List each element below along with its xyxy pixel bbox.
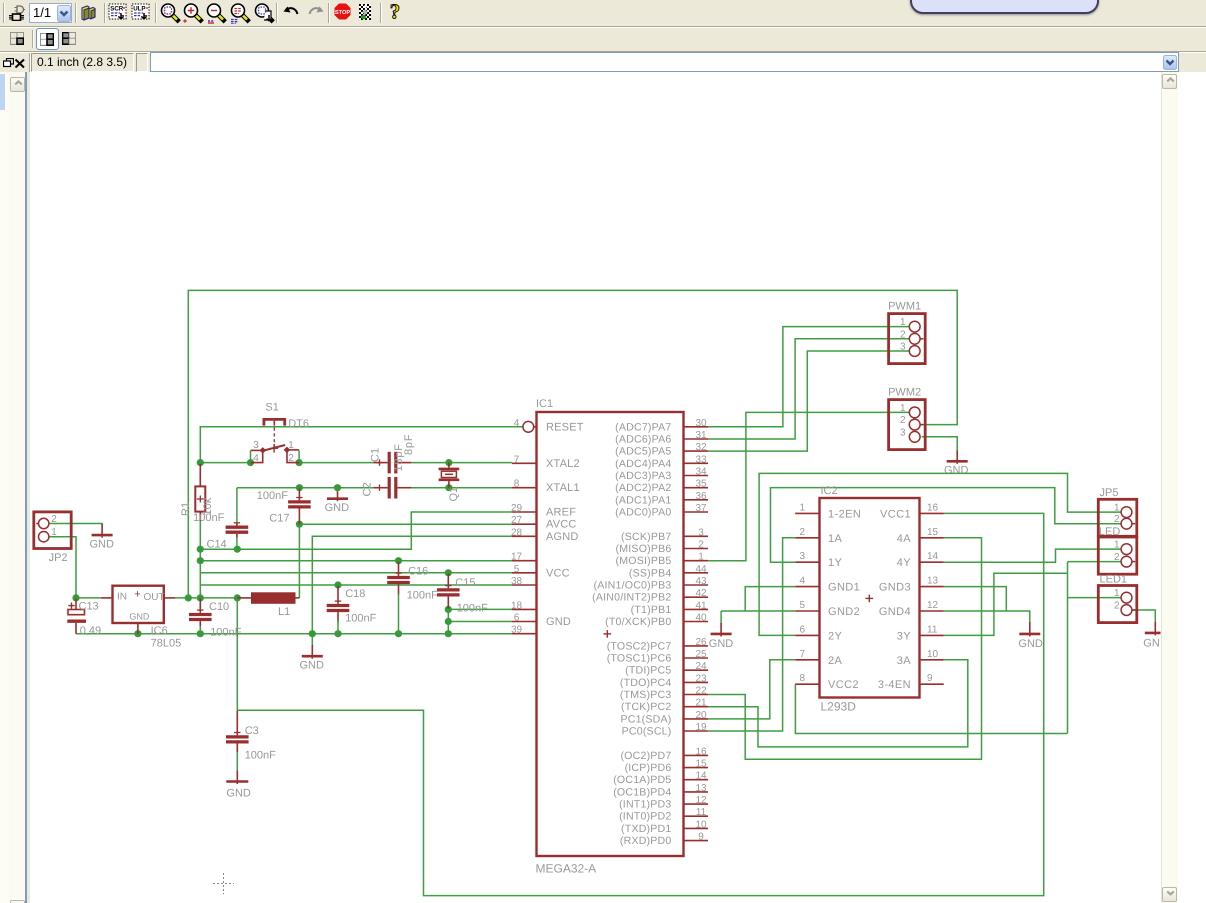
svg-text:C2: C2: [362, 482, 374, 496]
svg-text:11: 11: [696, 807, 707, 818]
svg-text:(ADC4)PA4: (ADC4)PA4: [615, 458, 671, 470]
svg-text:C3: C3: [245, 725, 259, 737]
svg-text:(OC1A)PD5: (OC1A)PD5: [613, 774, 671, 786]
svg-text:Q1: Q1: [448, 487, 460, 502]
svg-text:JP5: JP5: [1100, 487, 1119, 499]
svg-text:(INT0)PD2: (INT0)PD2: [619, 811, 671, 823]
svg-text:0,49: 0,49: [80, 625, 101, 637]
svg-text:(ADC0)PA0: (ADC0)PA0: [615, 507, 671, 519]
svg-text:GND: GND: [226, 788, 251, 800]
svg-text:12: 12: [695, 795, 707, 806]
svg-text:13: 13: [695, 783, 707, 794]
svg-text:GND4: GND4: [879, 606, 911, 618]
svg-text:R1: R1: [180, 502, 192, 516]
svg-text:10: 10: [695, 819, 707, 830]
svg-text:39: 39: [511, 625, 523, 636]
svg-text:2: 2: [799, 527, 805, 538]
svg-text:(OC1B)PD4: (OC1B)PD4: [613, 786, 671, 798]
svg-text:28: 28: [511, 527, 523, 538]
svg-text:38: 38: [511, 576, 523, 587]
svg-text:(AIN0/INT2)PB2: (AIN0/INT2)PB2: [592, 592, 671, 604]
svg-text:AVCC: AVCC: [546, 519, 577, 531]
svg-text:10: 10: [927, 649, 939, 660]
svg-text:20: 20: [695, 710, 707, 721]
svg-text:100nF: 100nF: [245, 750, 276, 762]
svg-text:AREF: AREF: [546, 507, 576, 519]
svg-text:6: 6: [514, 613, 520, 624]
svg-text:15: 15: [695, 759, 707, 770]
svg-text:C10: C10: [209, 601, 229, 613]
svg-text:AGND: AGND: [546, 531, 579, 543]
svg-text:(ADC7)PA7: (ADC7)PA7: [615, 421, 671, 433]
svg-text:43: 43: [695, 576, 707, 587]
svg-text:IN: IN: [117, 591, 127, 602]
svg-text:4: 4: [253, 453, 259, 464]
svg-text:1: 1: [1114, 503, 1120, 514]
svg-text:17: 17: [511, 552, 523, 563]
svg-text:(AIN1/OC0)PB3: (AIN1/OC0)PB3: [594, 580, 672, 592]
svg-text:C1: C1: [369, 448, 381, 462]
svg-text:(TOSC2)PC7: (TOSC2)PC7: [607, 640, 672, 652]
svg-text:C15: C15: [455, 577, 475, 589]
svg-text:(ICP)PD6: (ICP)PD6: [625, 762, 672, 774]
svg-text:9: 9: [698, 832, 704, 843]
svg-text:ULP: ULP: [133, 5, 145, 12]
svg-text:27: 27: [511, 515, 523, 526]
svg-text:IC6: IC6: [151, 625, 168, 637]
svg-text:2: 2: [698, 540, 704, 551]
svg-text:IC2: IC2: [821, 485, 838, 497]
svg-text:?: ?: [390, 2, 401, 22]
svg-text:OUT: OUT: [144, 592, 165, 603]
svg-text:1Y: 1Y: [828, 557, 843, 569]
svg-text:32: 32: [695, 442, 707, 453]
svg-text:C17: C17: [269, 513, 289, 525]
svg-text:STOP: STOP: [335, 10, 350, 16]
svg-text:4: 4: [514, 418, 520, 429]
svg-text:8: 8: [514, 479, 520, 490]
svg-text:7: 7: [514, 454, 520, 465]
svg-text:DT6: DT6: [288, 418, 309, 430]
svg-text:VCC: VCC: [546, 567, 570, 579]
svg-text:(RXD)PD0: (RXD)PD0: [620, 835, 672, 847]
svg-text:GND: GND: [90, 539, 115, 551]
svg-text:1: 1: [698, 552, 704, 563]
svg-text:SCR: SCR: [110, 5, 124, 12]
svg-text:5: 5: [514, 564, 520, 575]
svg-text:8: 8: [799, 673, 805, 684]
svg-text:18: 18: [511, 600, 523, 611]
svg-text:19: 19: [695, 722, 707, 733]
svg-text:GND1: GND1: [828, 582, 860, 594]
svg-text:VCC1: VCC1: [880, 508, 911, 520]
svg-text:4: 4: [799, 576, 805, 587]
svg-text:1: 1: [1114, 540, 1120, 551]
svg-text:3: 3: [900, 342, 906, 353]
svg-text:(TOSC1)PC6: (TOSC1)PC6: [607, 653, 672, 665]
svg-text:1: 1: [288, 440, 294, 451]
svg-text:44: 44: [695, 564, 707, 575]
svg-text:8pF: 8pF: [403, 434, 415, 455]
svg-text:(ADC6)PA6: (ADC6)PA6: [615, 434, 671, 446]
svg-text:15: 15: [927, 527, 939, 538]
svg-text:(TDO)PC4: (TDO)PC4: [620, 677, 672, 689]
svg-text:40: 40: [695, 613, 707, 624]
svg-text:GND3: GND3: [879, 582, 911, 594]
svg-text:PWM2: PWM2: [888, 387, 921, 399]
svg-text:3Y: 3Y: [897, 630, 912, 642]
svg-text:RESET: RESET: [546, 421, 584, 433]
svg-text:(TDI)PC5: (TDI)PC5: [625, 665, 671, 677]
svg-text:PC1(SDA): PC1(SDA): [620, 713, 671, 725]
svg-text:5: 5: [799, 600, 805, 611]
svg-text:2: 2: [1114, 514, 1120, 525]
svg-text:16: 16: [695, 746, 707, 757]
svg-text:1: 1: [799, 502, 805, 513]
svg-text:16: 16: [927, 502, 939, 513]
svg-text:LED1: LED1: [1100, 573, 1128, 585]
svg-text:1: 1: [900, 317, 906, 328]
svg-text:(SS)PB4: (SS)PB4: [629, 567, 672, 579]
svg-text:13: 13: [927, 576, 939, 587]
svg-text:VCC2: VCC2: [828, 679, 859, 691]
svg-text:S1: S1: [265, 402, 278, 414]
svg-text:(SCK)PB7: (SCK)PB7: [621, 531, 671, 543]
svg-text:(MISO)PB6: (MISO)PB6: [616, 543, 672, 555]
svg-text:24: 24: [695, 661, 707, 672]
svg-text:IC1: IC1: [536, 398, 553, 410]
svg-text:2: 2: [288, 453, 294, 464]
svg-text:(T1)PB1: (T1)PB1: [631, 604, 672, 616]
svg-text:21: 21: [695, 698, 707, 709]
svg-text:4Y: 4Y: [897, 557, 912, 569]
svg-text:33: 33: [695, 454, 707, 465]
svg-text:3-4EN: 3-4EN: [878, 679, 911, 691]
svg-text:29: 29: [511, 503, 523, 514]
svg-text:2Y: 2Y: [828, 630, 843, 642]
svg-text:(TMS)PC3: (TMS)PC3: [620, 689, 672, 701]
svg-text:GND: GND: [944, 465, 969, 477]
svg-text:23: 23: [695, 673, 707, 684]
svg-text:3A: 3A: [897, 655, 912, 667]
svg-text:(ADC2)PA2: (ADC2)PA2: [615, 482, 671, 494]
svg-text:30: 30: [695, 418, 707, 429]
svg-text:PWM1: PWM1: [888, 301, 921, 313]
svg-text:2: 2: [51, 514, 57, 525]
svg-text:+: +: [134, 588, 140, 600]
svg-text:3: 3: [253, 440, 259, 451]
svg-text:(MOSI)PB5: (MOSI)PB5: [616, 555, 672, 567]
svg-text:100nF: 100nF: [193, 512, 224, 524]
svg-text:GND: GND: [129, 611, 150, 621]
svg-text:1: 1: [1114, 588, 1120, 599]
svg-text:100nF: 100nF: [257, 490, 288, 502]
svg-text:2A: 2A: [828, 655, 843, 667]
svg-text:L293D: L293D: [821, 700, 857, 714]
svg-text:78L05: 78L05: [151, 638, 182, 650]
svg-text:36: 36: [695, 491, 707, 502]
svg-text:JP2: JP2: [49, 552, 68, 564]
svg-text:14: 14: [695, 771, 707, 782]
svg-text:42: 42: [695, 588, 707, 599]
svg-text:7: 7: [799, 649, 805, 660]
svg-text:(T0/XCK)PB0: (T0/XCK)PB0: [605, 616, 671, 628]
svg-text:3: 3: [698, 527, 704, 538]
svg-text:(TXD)PD1: (TXD)PD1: [621, 823, 671, 835]
svg-text:XTAL2: XTAL2: [546, 458, 580, 470]
svg-text:PC0(SCL): PC0(SCL): [622, 726, 672, 738]
svg-text:L1: L1: [278, 606, 290, 618]
svg-text:26: 26: [695, 637, 707, 648]
svg-text:34: 34: [695, 467, 707, 478]
svg-text:(OC2)PD7: (OC2)PD7: [620, 750, 671, 762]
svg-text:GND: GND: [325, 502, 350, 514]
svg-text:35: 35: [695, 479, 707, 490]
svg-text:GND: GND: [546, 616, 571, 628]
svg-text:XTAL1: XTAL1: [546, 482, 580, 494]
svg-text:(ADC1)PA1: (ADC1)PA1: [615, 494, 671, 506]
svg-text:(INT1)PD3: (INT1)PD3: [619, 799, 671, 811]
svg-text:GND: GND: [709, 638, 734, 650]
svg-text:9: 9: [927, 673, 933, 684]
svg-text:(TCK)PC2: (TCK)PC2: [621, 701, 671, 713]
svg-text:11: 11: [927, 624, 938, 635]
svg-text:4A: 4A: [897, 533, 912, 545]
svg-text:(ADC5)PA5: (ADC5)PA5: [615, 446, 671, 458]
svg-text:1A: 1A: [828, 533, 843, 545]
svg-text:12: 12: [927, 600, 939, 611]
svg-text:2: 2: [900, 329, 906, 340]
svg-text:C13: C13: [79, 600, 99, 612]
svg-text:(ADC3)PA3: (ADC3)PA3: [615, 470, 671, 482]
svg-text:1: 1: [51, 527, 57, 538]
svg-text:14: 14: [927, 551, 939, 562]
svg-text:100nF: 100nF: [407, 590, 438, 602]
svg-text:C18: C18: [345, 588, 365, 600]
svg-text:37: 37: [695, 503, 707, 514]
svg-text:100nF: 100nF: [457, 603, 488, 615]
svg-text:GND: GND: [300, 660, 325, 672]
svg-text:3: 3: [900, 427, 906, 438]
svg-text:2: 2: [1114, 552, 1120, 563]
svg-text:GND: GND: [1018, 638, 1043, 650]
svg-text:2: 2: [1114, 601, 1120, 612]
svg-text:MEGA32-A: MEGA32-A: [536, 862, 597, 876]
svg-text:C14: C14: [207, 538, 227, 550]
svg-text:C16: C16: [408, 565, 428, 577]
svg-text:100nF: 100nF: [210, 627, 241, 639]
svg-text:LED: LED: [1099, 526, 1120, 538]
svg-text:100nF: 100nF: [345, 613, 376, 625]
svg-text:41: 41: [695, 600, 707, 611]
svg-text:25: 25: [695, 649, 707, 660]
svg-text:3: 3: [799, 551, 805, 562]
svg-text:2: 2: [900, 415, 906, 426]
svg-text:1-2EN: 1-2EN: [828, 508, 861, 520]
svg-text:22: 22: [695, 686, 707, 697]
svg-text:31: 31: [695, 430, 707, 441]
svg-text:1: 1: [900, 403, 906, 414]
svg-text:6: 6: [799, 624, 805, 635]
svg-text:GND2: GND2: [828, 606, 860, 618]
